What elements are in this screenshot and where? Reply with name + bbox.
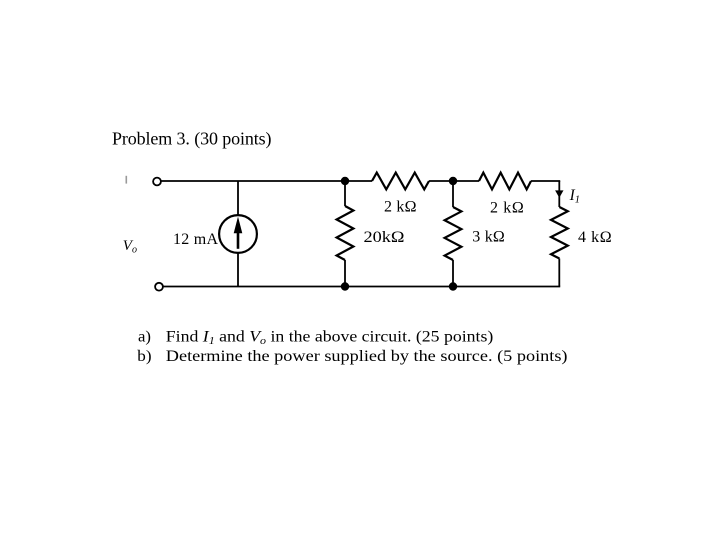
svg-text:Vo: Vo <box>123 238 137 256</box>
svg-text:Determine the power supplied b: Determine the power supplied by the sour… <box>166 346 568 365</box>
svg-text:Problem 3. (30 points): Problem 3. (30 points) <box>112 128 272 149</box>
svg-text:3 kΩ: 3 kΩ <box>472 229 505 246</box>
svg-text:b): b) <box>137 346 151 365</box>
svg-text:2 kΩ: 2 kΩ <box>384 198 417 215</box>
svg-text:2 kΩ: 2 kΩ <box>490 199 524 216</box>
svg-text:Find I1 and Vo in the above ci: Find I1 and Vo in the above circuit. (25… <box>166 327 494 348</box>
svg-text:12 mA: 12 mA <box>173 231 218 248</box>
svg-text:I1: I1 <box>569 187 580 205</box>
svg-text:a): a) <box>138 327 151 346</box>
svg-text:20kΩ: 20kΩ <box>364 229 405 246</box>
svg-text:4 kΩ: 4 kΩ <box>578 229 612 246</box>
